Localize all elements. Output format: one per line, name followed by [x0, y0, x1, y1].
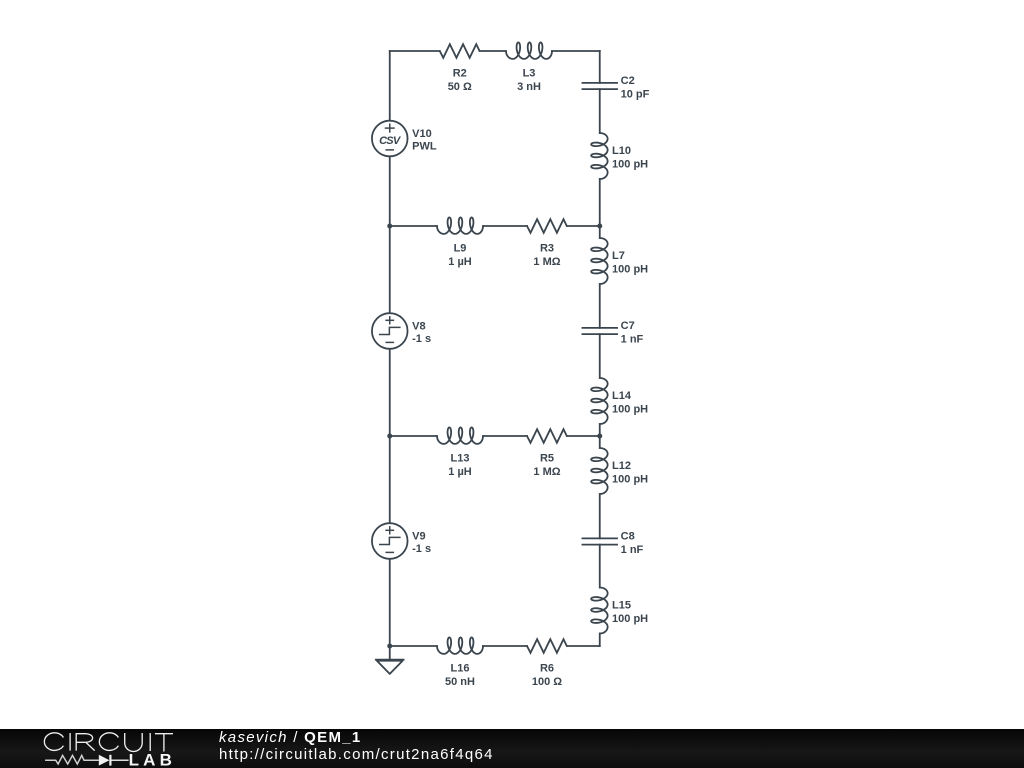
node B (junction): [597, 224, 602, 229]
svg-text:C8: C8: [621, 530, 635, 542]
node C (junction): [387, 434, 392, 439]
wire: [599, 284, 601, 328]
wire: [599, 634, 601, 647]
svg-text:1 nF: 1 nF: [621, 333, 644, 345]
wire: [567, 645, 600, 647]
svg-text:L15: L15: [612, 599, 631, 611]
wire: [599, 51, 601, 83]
capacitor C7: [582, 320, 644, 345]
svg-text:-1 s: -1 s: [412, 333, 431, 345]
svg-text:1 nF: 1 nF: [621, 544, 644, 556]
wire: [483, 645, 527, 647]
svg-text:L12: L12: [612, 460, 631, 472]
wire: [599, 545, 601, 588]
svg-text:R5: R5: [540, 453, 554, 465]
wire: [389, 436, 391, 523]
svg-text:V10: V10: [412, 128, 432, 140]
wire: [389, 646, 391, 660]
svg-text:50 nH: 50 nH: [445, 676, 475, 688]
inductor L13: [437, 427, 483, 477]
svg-text:100 pH: 100 pH: [612, 403, 648, 415]
svg-text:L9: L9: [454, 243, 467, 255]
wire: [599, 179, 601, 226]
inductor L9: [437, 217, 483, 267]
node A (junction): [387, 224, 392, 229]
inductor L16: [437, 637, 483, 687]
wire: [390, 435, 437, 437]
svg-text:100 pH: 100 pH: [612, 613, 648, 625]
svg-text:V9: V9: [412, 531, 425, 543]
inductor L14: [591, 378, 648, 424]
node D (junction): [597, 434, 602, 439]
wire: [389, 349, 391, 436]
svg-text:1 µH: 1 µH: [448, 256, 472, 268]
wire: [389, 51, 391, 121]
svg-text:L7: L7: [612, 250, 625, 262]
svg-text:100 pH: 100 pH: [612, 158, 648, 170]
wire: [599, 334, 601, 378]
svg-text:R3: R3: [540, 243, 554, 255]
wire: [567, 225, 600, 227]
wire: [483, 225, 527, 227]
voltage source V9 (step): [372, 523, 431, 559]
svg-text:LAB: LAB: [129, 750, 177, 768]
capacitor C8: [582, 530, 644, 555]
svg-text:1 MΩ: 1 MΩ: [533, 256, 560, 268]
svg-text:L10: L10: [612, 145, 631, 157]
wire: [389, 559, 391, 646]
voltage source V8 (step): [372, 313, 431, 349]
inductor L3: [506, 42, 552, 92]
svg-text:-1 s: -1 s: [412, 543, 431, 555]
wire: [599, 436, 601, 448]
svg-text:L3: L3: [523, 68, 536, 80]
svg-text:L16: L16: [451, 663, 470, 675]
svg-text:50 Ω: 50 Ω: [448, 81, 472, 93]
capacitor C2: [582, 75, 650, 100]
resistor R6: [527, 639, 567, 688]
svg-text:100 pH: 100 pH: [612, 473, 648, 485]
voltage source V10 (PWL/CSV): [372, 121, 437, 157]
inductor L12: [591, 448, 648, 494]
wire: [599, 89, 601, 133]
svg-text:100 Ω: 100 Ω: [532, 676, 562, 688]
CircuitLab logo: diode: [99, 755, 110, 766]
wire: [390, 225, 437, 227]
resistor R3: [527, 219, 567, 268]
CircuitLab logo: CIRCUIT wordmark (drawn): [44, 733, 173, 752]
wire: [599, 424, 601, 436]
svg-text:1 MΩ: 1 MΩ: [533, 466, 560, 478]
resistor R5: [527, 429, 567, 478]
svg-text:C7: C7: [621, 320, 635, 332]
svg-text:PWL: PWL: [412, 141, 437, 153]
wire: [552, 50, 600, 52]
wire: [599, 494, 601, 538]
svg-text:L14: L14: [612, 390, 632, 402]
footer title text: [219, 729, 494, 764]
wire: [480, 50, 506, 52]
svg-text:3 nH: 3 nH: [517, 81, 541, 93]
resistor R2: [440, 44, 480, 93]
inductor L7: [591, 238, 648, 284]
wire: [483, 435, 527, 437]
svg-text:C2: C2: [621, 75, 635, 87]
svg-text:L13: L13: [451, 453, 470, 465]
inductor L15: [591, 588, 648, 634]
wire: [599, 226, 601, 238]
ground: [375, 660, 405, 674]
wire: [389, 226, 391, 313]
svg-text:1 µH: 1 µH: [448, 466, 472, 478]
svg-text:R2: R2: [453, 68, 467, 80]
svg-text:R6: R6: [540, 663, 554, 675]
svg-text:10 pF: 10 pF: [621, 88, 650, 100]
wire: [390, 50, 440, 52]
CircuitLab logo: resistor zigzag: [45, 755, 99, 764]
svg-text:V8: V8: [412, 321, 425, 333]
svg-text:CSV: CSV: [379, 135, 402, 147]
node E (junction): [387, 644, 392, 649]
wire: [390, 645, 437, 647]
wire: [389, 156, 391, 226]
inductor L10: [591, 133, 648, 179]
wire: [567, 435, 600, 437]
svg-text:100 pH: 100 pH: [612, 263, 648, 275]
